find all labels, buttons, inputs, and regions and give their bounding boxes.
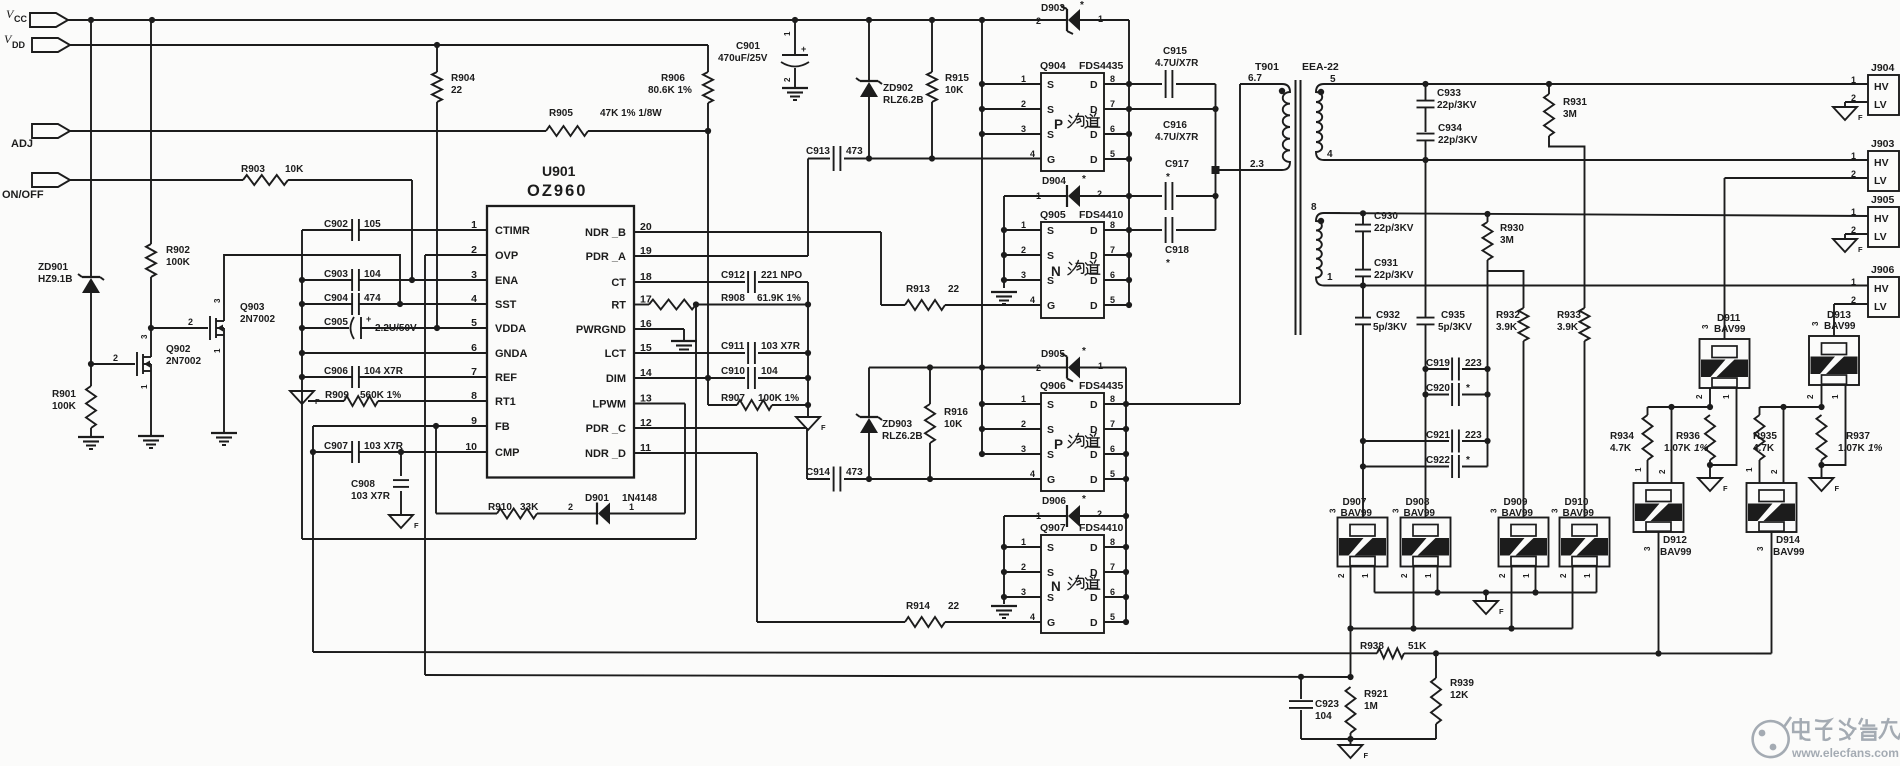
- svg-text:HZ9.1B: HZ9.1B: [38, 274, 72, 285]
- svg-text:HV: HV: [1874, 283, 1889, 295]
- svg-text:4: 4: [1030, 149, 1035, 159]
- svg-text:C908: C908: [351, 479, 375, 490]
- svg-text:1: 1: [1851, 151, 1856, 161]
- ground PWRGND: [671, 341, 697, 353]
- svg-text:R930: R930: [1500, 223, 1524, 234]
- svg-text:BAV99: BAV99: [1824, 321, 1856, 332]
- wire J903 LV to D911: [1725, 178, 1869, 339]
- ground R936 F symbol: [1698, 478, 1728, 493]
- svg-text:R903: R903: [241, 164, 265, 175]
- diode D910 BAV99: [1551, 497, 1610, 567]
- svg-text:2: 2: [1036, 16, 1041, 26]
- ground Q903: [211, 433, 237, 445]
- svg-text:J906: J906: [1871, 264, 1895, 276]
- wire LPWM route: [634, 404, 685, 514]
- svg-text:3M: 3M: [1500, 235, 1514, 246]
- svg-text:RT: RT: [611, 300, 626, 312]
- wire OVP sense bus: [425, 674, 1351, 680]
- svg-text:D912: D912: [1663, 535, 1687, 546]
- wire D912 pin2: [1658, 407, 1672, 483]
- svg-text:C901: C901: [736, 41, 760, 52]
- wire D909 pin1: [1522, 566, 1539, 596]
- svg-text:103 X7R: 103 X7R: [364, 441, 404, 452]
- svg-text:R909: R909: [325, 390, 349, 401]
- capacitor C910: [634, 366, 811, 389]
- svg-text:D908: D908: [1406, 497, 1430, 508]
- svg-text:J904: J904: [1871, 62, 1895, 74]
- svg-text:R905: R905: [549, 108, 573, 119]
- svg-text:223: 223: [1465, 430, 1482, 441]
- capacitor C905: [302, 314, 487, 339]
- svg-text:2.3: 2.3: [1250, 159, 1264, 170]
- transformer T901 labels: [1255, 61, 1339, 73]
- svg-text:5: 5: [471, 317, 477, 329]
- svg-text:FDS4435: FDS4435: [1079, 60, 1124, 72]
- svg-text:R908: R908: [721, 293, 745, 304]
- svg-text:BAV99: BAV99: [1341, 508, 1373, 519]
- svg-text:3: 3: [1551, 508, 1560, 513]
- svg-text:N: N: [1051, 579, 1061, 594]
- svg-text:1: 1: [1021, 220, 1026, 230]
- svg-text:DIM: DIM: [606, 373, 626, 385]
- wire D910 pin1: [1583, 566, 1597, 593]
- resistor R913: [881, 284, 1041, 310]
- wire J904 LV ground: [1845, 102, 1868, 107]
- svg-text:1N4148: 1N4148: [622, 493, 657, 504]
- svg-text:2: 2: [1021, 99, 1026, 109]
- wire ground column right of IC: [807, 282, 809, 417]
- svg-text:CMP: CMP: [495, 447, 519, 459]
- svg-text:C914: C914: [806, 467, 830, 478]
- svg-text:473: 473: [846, 467, 863, 478]
- svg-text:C910: C910: [721, 366, 745, 377]
- diode D903: [1036, 0, 1129, 305]
- ground R921 F symbol: [1339, 739, 1369, 760]
- svg-text:REF: REF: [495, 372, 517, 384]
- svg-text:R914: R914: [906, 601, 930, 612]
- svg-text:D913: D913: [1827, 310, 1851, 321]
- svg-text:C933: C933: [1437, 88, 1461, 99]
- svg-text:BAV99: BAV99: [1773, 547, 1805, 558]
- diode D909 BAV99: [1490, 497, 1549, 567]
- ground Q905: [991, 292, 1017, 304]
- svg-text:D907: D907: [1343, 497, 1367, 508]
- svg-text:R910: R910: [488, 502, 512, 513]
- svg-text:BAV99: BAV99: [1502, 508, 1534, 519]
- resistor R937: [1817, 415, 1883, 478]
- U901 left pin names: [465, 219, 530, 459]
- wire gate drive bottom: [866, 476, 1041, 482]
- svg-text:4.7U/X7R: 4.7U/X7R: [1155, 132, 1199, 143]
- svg-text:2N7002: 2N7002: [240, 314, 275, 325]
- transistor Q902: [137, 334, 201, 389]
- svg-text:4: 4: [471, 293, 477, 305]
- svg-text:R934: R934: [1610, 431, 1634, 442]
- junction dots on ground bus: [299, 277, 305, 380]
- svg-text:2.2U/50V: 2.2U/50V: [375, 323, 417, 334]
- label P-channel Q904: [1054, 113, 1100, 132]
- label N-channel Q905: [1051, 260, 1100, 279]
- watermark elecfans logo: [1753, 717, 1900, 760]
- svg-text:D903: D903: [1041, 3, 1065, 14]
- svg-text:S: S: [1047, 225, 1054, 237]
- svg-text:1: 1: [1098, 361, 1103, 371]
- svg-text:6.7: 6.7: [1248, 73, 1262, 84]
- wire D913 pin1: [1822, 385, 1846, 465]
- svg-text:22p/3KV: 22p/3KV: [1438, 135, 1478, 146]
- wire D908 pin1: [1424, 566, 1441, 596]
- svg-text:R938: R938: [1360, 641, 1384, 652]
- svg-text:4: 4: [1327, 149, 1333, 160]
- op-amp U901 OZ960 box: [487, 163, 634, 478]
- svg-text:ZD901: ZD901: [38, 262, 68, 273]
- wire C919 bus to D908: [1422, 366, 1428, 518]
- resistor R916: [925, 368, 968, 480]
- svg-text:G: G: [1047, 617, 1055, 629]
- wire NDR_B route: [634, 232, 881, 305]
- svg-text:1%: 1%: [1868, 443, 1883, 454]
- resistor R921: [1346, 687, 1389, 742]
- svg-text:D910: D910: [1565, 497, 1589, 508]
- svg-text:1: 1: [471, 219, 477, 231]
- wire lower supply node: [869, 364, 1067, 370]
- capacitor C908: [351, 452, 409, 515]
- diode D912 BAV99: [1634, 483, 1692, 558]
- diode D904: [1004, 174, 1129, 207]
- capacitor C904: [302, 293, 487, 315]
- transistor Q903: [210, 298, 275, 353]
- svg-text:1: 1: [213, 348, 222, 353]
- svg-text:D909: D909: [1504, 497, 1528, 508]
- svg-text:1.07K: 1.07K: [1664, 443, 1691, 454]
- svg-text:8: 8: [1110, 220, 1115, 230]
- svg-text:+: +: [366, 314, 371, 324]
- svg-text:EEA-22: EEA-22: [1302, 61, 1339, 73]
- svg-text:3.9K: 3.9K: [1496, 322, 1518, 333]
- svg-text:R939: R939: [1450, 678, 1474, 689]
- svg-text:8: 8: [1110, 74, 1115, 84]
- svg-text:10K: 10K: [944, 419, 963, 430]
- svg-text:ADJ: ADJ: [11, 138, 33, 150]
- svg-text:*: *: [1466, 455, 1470, 466]
- svg-text:2: 2: [1021, 419, 1026, 429]
- svg-text:FDS4410: FDS4410: [1079, 209, 1124, 221]
- svg-text:F: F: [1723, 484, 1728, 493]
- wire Q905 source bus: [1001, 196, 1007, 288]
- capacitor C912: [634, 270, 808, 293]
- svg-text:470uF/25V: 470uF/25V: [718, 53, 768, 64]
- svg-text:C903: C903: [324, 269, 348, 280]
- resistor R936: [1664, 415, 1715, 478]
- svg-text:S: S: [1047, 129, 1054, 141]
- ground C908 F symbol: [389, 515, 419, 530]
- svg-text:G: G: [1047, 154, 1055, 166]
- svg-text:LCT: LCT: [605, 348, 627, 360]
- wire Q902 gate: [91, 353, 135, 364]
- diode D905: [1036, 346, 1126, 622]
- svg-text:T901: T901: [1255, 61, 1279, 73]
- capacitor C915: [1129, 46, 1216, 98]
- svg-text:4: 4: [1030, 295, 1035, 305]
- wire Q902 source to ground: [148, 325, 154, 436]
- svg-text:1: 1: [1327, 272, 1333, 283]
- wire Q903 gate: [151, 317, 208, 328]
- wire R904 to VDDA: [436, 45, 438, 328]
- svg-text:5p/3KV: 5p/3KV: [1438, 322, 1472, 333]
- svg-text:4.7K: 4.7K: [1610, 443, 1632, 454]
- capacitor C922: [1363, 455, 1488, 478]
- node VCC input connector: [6, 7, 68, 27]
- svg-text:HV: HV: [1874, 157, 1889, 169]
- svg-text:1: 1: [140, 384, 149, 389]
- svg-text:RLZ6.2B: RLZ6.2B: [883, 95, 924, 106]
- svg-text:LV: LV: [1874, 175, 1887, 187]
- wire C921 bus to D907: [1360, 438, 1366, 518]
- diode D908 BAV99: [1392, 497, 1451, 567]
- svg-text:*: *: [1082, 346, 1086, 357]
- svg-text:C907: C907: [324, 441, 348, 452]
- svg-text:3: 3: [140, 334, 149, 339]
- svg-text:8: 8: [1311, 202, 1317, 213]
- resistor R915: [927, 20, 969, 159]
- wire D910 pin2: [1559, 566, 1573, 629]
- capacitor C919: [1426, 358, 1488, 381]
- svg-text:NDR _B: NDR _B: [585, 227, 626, 239]
- wire D913 pin2: [1806, 385, 1822, 407]
- wire divider node B: [1760, 404, 1825, 410]
- capacitor C933: [1417, 84, 1477, 132]
- ground Q907: [991, 606, 1017, 618]
- resistor R909: [308, 390, 487, 406]
- resistor R904: [432, 72, 475, 102]
- svg-text:1: 1: [1831, 394, 1840, 399]
- svg-text:104: 104: [1315, 711, 1332, 722]
- svg-text:LV: LV: [1874, 99, 1887, 111]
- svg-text:8: 8: [471, 390, 477, 402]
- svg-text:104 X7R: 104 X7R: [364, 366, 404, 377]
- capacitor C901: [718, 20, 809, 88]
- transistor Q906: [1040, 380, 1124, 491]
- svg-text:R906: R906: [661, 73, 685, 84]
- svg-text:3: 3: [1811, 321, 1820, 326]
- diode D913 BAV99: [1809, 310, 1859, 385]
- wire J905 LV ground: [1845, 234, 1868, 239]
- wire D914 pin2: [1770, 407, 1784, 483]
- capacitor C917: [1129, 159, 1216, 210]
- svg-text:D: D: [1090, 300, 1098, 312]
- wire D911 pin2: [1695, 388, 1710, 407]
- wire NDR_D route: [634, 453, 757, 622]
- svg-text:4.7K: 4.7K: [1753, 443, 1775, 454]
- resistor R939: [1431, 653, 1474, 739]
- ground J905 F symbol: [1833, 239, 1863, 254]
- svg-text:33K: 33K: [520, 502, 539, 513]
- svg-text:1: 1: [1851, 75, 1856, 85]
- svg-text:7: 7: [1110, 99, 1115, 109]
- wires Q904 pins: [982, 74, 1129, 159]
- svg-text:R933: R933: [1557, 310, 1581, 321]
- svg-text:HV: HV: [1874, 81, 1889, 93]
- capacitor C914: [806, 467, 869, 492]
- svg-text:F: F: [1858, 245, 1863, 254]
- wire VDD: [70, 42, 708, 48]
- svg-text:D911: D911: [1717, 313, 1741, 324]
- svg-text:D906: D906: [1042, 496, 1066, 507]
- svg-text:C905: C905: [324, 317, 348, 328]
- svg-text:1: 1: [1522, 573, 1531, 578]
- svg-text:51K: 51K: [1408, 641, 1427, 652]
- capacitor C931: [1355, 258, 1414, 286]
- capacitor C934: [1417, 123, 1478, 160]
- svg-text:104: 104: [761, 366, 778, 377]
- svg-text:R901: R901: [52, 389, 76, 400]
- svg-text:NDR _D: NDR _D: [585, 448, 626, 460]
- svg-text:G: G: [1047, 300, 1055, 312]
- svg-text:8: 8: [1110, 537, 1115, 547]
- svg-text:473: 473: [846, 146, 863, 157]
- svg-text:7: 7: [1110, 245, 1115, 255]
- svg-text:C912: C912: [721, 270, 745, 281]
- svg-text:LV: LV: [1874, 231, 1887, 243]
- wire VCC drop to ZD901: [90, 20, 92, 277]
- svg-text:D905: D905: [1041, 349, 1065, 360]
- resistor R930: [1483, 214, 1525, 308]
- svg-text:C935: C935: [1441, 310, 1465, 321]
- svg-text:C915: C915: [1163, 46, 1187, 57]
- resistor R935: [1745, 407, 1777, 483]
- wire gate drive top: [866, 155, 1041, 161]
- wire primary 2.3 lead: [1250, 159, 1264, 170]
- svg-text:100K: 100K: [52, 401, 77, 412]
- svg-text:C916: C916: [1163, 120, 1187, 131]
- svg-text:D: D: [1090, 449, 1098, 461]
- svg-text:105: 105: [364, 219, 381, 230]
- svg-text:OZ960: OZ960: [527, 182, 587, 200]
- svg-text:3: 3: [1490, 508, 1499, 513]
- svg-text:S: S: [1047, 79, 1054, 91]
- svg-text:C932: C932: [1376, 310, 1400, 321]
- capacitor C920: [1426, 383, 1488, 406]
- svg-text:1: 1: [1583, 573, 1592, 578]
- node VDD input connector: [4, 32, 70, 52]
- svg-text:3: 3: [1701, 324, 1710, 329]
- svg-text:103 X7R: 103 X7R: [351, 491, 391, 502]
- connector J904: [1851, 62, 1899, 115]
- svg-text:RT1: RT1: [495, 396, 516, 408]
- svg-text:10K: 10K: [285, 164, 304, 175]
- svg-text:S: S: [1047, 542, 1054, 554]
- resistor R906: [648, 72, 713, 103]
- svg-text:3: 3: [213, 298, 222, 303]
- svg-text:D: D: [1090, 542, 1098, 554]
- svg-text:1: 1: [1021, 537, 1026, 547]
- capacitor C911: [634, 341, 811, 364]
- wire D911 pin1: [1710, 388, 1737, 465]
- svg-text:4: 4: [1030, 469, 1035, 479]
- svg-text:RLZ6.2B: RLZ6.2B: [882, 431, 923, 442]
- svg-text:3: 3: [1329, 508, 1338, 513]
- svg-text:C917: C917: [1165, 159, 1189, 170]
- resistor R903: [241, 164, 304, 185]
- svg-text:Q905: Q905: [1040, 209, 1066, 221]
- svg-text:C904: C904: [324, 293, 348, 304]
- wire D907 pin2 column: [1337, 566, 1354, 680]
- svg-text:80.6K 1%: 80.6K 1%: [648, 85, 692, 96]
- svg-text:S: S: [1047, 449, 1054, 461]
- capacitor C906: [302, 366, 487, 388]
- svg-text:R935: R935: [1753, 431, 1777, 442]
- svg-text:R902: R902: [166, 245, 190, 256]
- wire Q902 drain to R902: [150, 277, 152, 341]
- wire D914 pin3 to bus: [1771, 532, 1773, 654]
- svg-text:D901: D901: [585, 493, 609, 504]
- svg-text:CC: CC: [14, 14, 27, 24]
- svg-text:ZD903: ZD903: [882, 419, 912, 430]
- svg-text:5p/3KV: 5p/3KV: [1373, 322, 1407, 333]
- wire diode sense bus: [1351, 628, 1573, 630]
- wires Q906 pins: [982, 394, 1126, 479]
- svg-text:2: 2: [1770, 469, 1779, 474]
- svg-text:R913: R913: [906, 284, 930, 295]
- resistor R908: [634, 293, 811, 310]
- svg-text:1: 1: [629, 502, 634, 512]
- svg-text:22: 22: [451, 85, 463, 96]
- wire primary tap column: [1212, 84, 1220, 230]
- ground diode rail F symbol: [1474, 593, 1504, 617]
- svg-text:C934: C934: [1438, 123, 1462, 134]
- svg-text:Q907: Q907: [1040, 522, 1066, 534]
- svg-text:*: *: [1082, 494, 1086, 505]
- svg-text:2: 2: [1559, 573, 1568, 578]
- wire PDR_C route: [634, 428, 807, 479]
- svg-text:3: 3: [1021, 587, 1026, 597]
- svg-text:2N7002: 2N7002: [166, 356, 201, 367]
- wire Q904 source bus: [979, 20, 985, 457]
- wire ADJ: [70, 128, 711, 134]
- svg-text:C913: C913: [806, 146, 830, 157]
- svg-text:5: 5: [1110, 469, 1115, 479]
- svg-text:7: 7: [1110, 419, 1115, 429]
- svg-text:P: P: [1054, 117, 1063, 132]
- U901 right pin names: [576, 221, 652, 460]
- svg-text:7: 7: [1110, 562, 1115, 572]
- capacitor C930: [1355, 211, 1414, 269]
- svg-text:1.07K: 1.07K: [1838, 443, 1865, 454]
- capacitor C913: [806, 146, 869, 171]
- connector J903: [1851, 138, 1899, 191]
- svg-text:C918: C918: [1165, 245, 1189, 256]
- svg-text:10K: 10K: [945, 85, 964, 96]
- resistor R931: [1544, 84, 1587, 308]
- svg-text:D914: D914: [1776, 535, 1800, 546]
- svg-text:1: 1: [1036, 511, 1041, 521]
- svg-text:1: 1: [1098, 14, 1103, 24]
- diode D901: [585, 493, 685, 525]
- svg-text:1: 1: [1424, 573, 1433, 578]
- svg-text:22p/3KV: 22p/3KV: [1374, 223, 1414, 234]
- svg-text:5: 5: [1110, 295, 1115, 305]
- svg-text:2: 2: [1695, 394, 1704, 399]
- svg-text:D: D: [1090, 154, 1098, 166]
- svg-text:12K: 12K: [1450, 690, 1469, 701]
- svg-text:1: 1: [1036, 191, 1041, 201]
- svg-text:D: D: [1090, 225, 1098, 237]
- capacitor C935: [1417, 160, 1473, 369]
- svg-text:GNDA: GNDA: [495, 348, 527, 360]
- wire secondary pin8 to J905: [1324, 210, 1868, 217]
- transistor Q905: [1040, 209, 1124, 318]
- junction dots drain bus bottom: [1123, 401, 1129, 625]
